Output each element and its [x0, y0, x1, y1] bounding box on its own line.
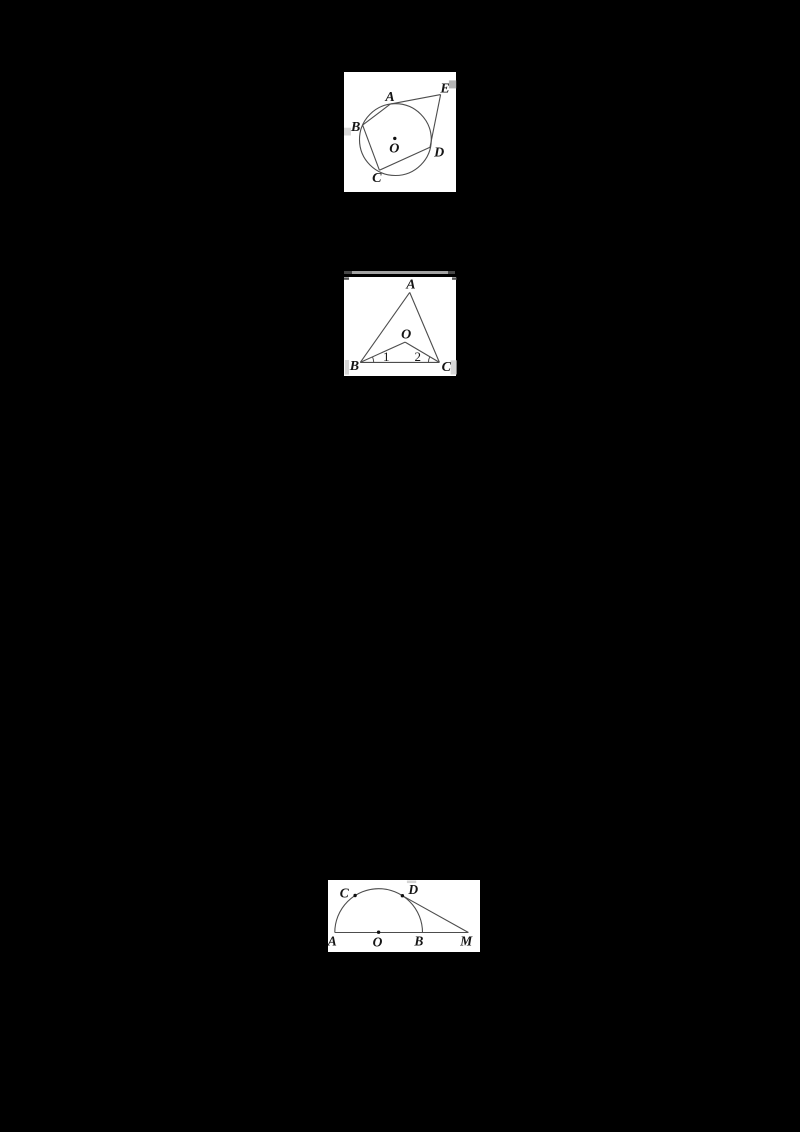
svg-text:E: E: [439, 81, 449, 96]
side AC: [409, 292, 439, 362]
line DM: [402, 895, 468, 932]
svg-text:M: M: [459, 933, 473, 948]
gray artifact above D: [407, 880, 416, 883]
center dot O: [377, 930, 380, 933]
dark notch top-left: [344, 277, 349, 279]
gray artifact bottom-left: [345, 360, 349, 375]
line AE: [390, 94, 440, 104]
gray artifact square left edge near B: [344, 127, 351, 135]
svg-text:D: D: [433, 145, 444, 160]
angle arc at B: [372, 357, 373, 363]
semicircle arc AB: [335, 888, 423, 932]
svg-text:B: B: [413, 933, 423, 948]
figure 1 panel (cyclic quadrilateral ABCD with external point E): [344, 72, 456, 192]
svg-text:1: 1: [383, 349, 390, 364]
svg-text:A: A: [328, 933, 337, 948]
gray artifact bottom-right: [450, 360, 456, 374]
svg-text:A: A: [384, 90, 394, 105]
figure 3 panel (semicircle on AB with center O, points C D, external M): [328, 880, 480, 952]
stripe dark right end: [448, 271, 455, 274]
side AB: [360, 292, 409, 362]
svg-text:B: B: [350, 119, 360, 134]
center dot O: [393, 136, 396, 139]
circle O: [359, 103, 431, 175]
svg-text:B: B: [349, 359, 359, 374]
svg-text:O: O: [401, 328, 411, 343]
dark notch top-right: [452, 277, 457, 279]
chord CD: [379, 147, 430, 170]
dot C: [353, 894, 356, 897]
gray artifact square right of E: [449, 80, 456, 88]
svg-text:C: C: [340, 885, 350, 900]
svg-text:C: C: [441, 360, 451, 375]
line ED: [430, 94, 441, 147]
svg-text:C: C: [372, 171, 382, 186]
svg-text:O: O: [373, 934, 383, 949]
figure 2 scrollbar-like gray stripe above panel: [344, 271, 455, 274]
chord BC: [362, 125, 379, 170]
svg-text:O: O: [389, 141, 399, 156]
segment OC: [405, 342, 439, 362]
svg-text:D: D: [407, 882, 418, 897]
figure 2 panel (triangle ABC with interior point O, angles 1 and 2): [344, 277, 457, 376]
segment BO: [360, 342, 405, 362]
angle arc at C: [428, 357, 430, 363]
stripe dark left end: [344, 271, 352, 274]
svg-text:A: A: [405, 278, 415, 293]
svg-text:2: 2: [414, 349, 421, 364]
baseline AM: [335, 931, 469, 933]
chord AB: [362, 104, 390, 125]
dot D: [401, 894, 404, 897]
side BC: [360, 361, 439, 363]
